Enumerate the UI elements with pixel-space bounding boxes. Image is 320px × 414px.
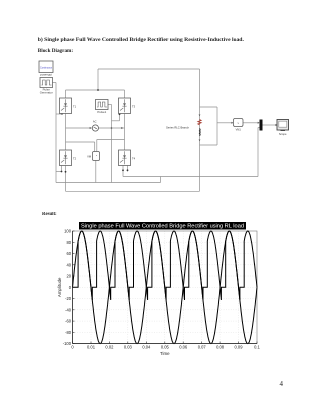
svg-text:Generator: Generator [40,90,53,94]
svg-text:60: 60 [66,251,71,256]
svg-text:Pulse1: Pulse1 [97,110,106,114]
svg-text:Single phase Full Wave Control: Single phase Full Wave Controlled Bridge… [81,224,244,230]
svg-text:Amplitude: Amplitude [57,277,62,297]
svg-text:T3: T3 [132,105,136,109]
svg-text:0.08: 0.08 [216,345,225,350]
svg-text:T4: T4 [132,157,136,161]
svg-text:0.02: 0.02 [105,345,114,350]
svg-text:20: 20 [66,274,71,279]
svg-text:T2: T2 [73,157,77,161]
svg-text:powergui: powergui [40,73,52,77]
svg-text:Series RLC Branch: Series RLC Branch [166,125,190,129]
svg-text:0.09: 0.09 [235,345,244,350]
svg-text:AC: AC [93,120,97,124]
svg-text:0: 0 [69,285,72,290]
svg-text:0.04: 0.04 [142,345,151,350]
svg-text:-40: -40 [65,307,72,312]
svg-text:0: 0 [71,345,74,350]
svg-text:0.06: 0.06 [179,345,188,350]
svg-text:0.07: 0.07 [198,345,207,350]
svg-text:-20: -20 [65,296,72,301]
svg-text:Continuous: Continuous [40,65,53,69]
svg-text:0.05: 0.05 [161,345,170,350]
svg-text:100: 100 [64,229,72,234]
svg-text:VM1: VM1 [236,129,242,132]
svg-text:0.03: 0.03 [124,345,133,350]
svg-text:Scope: Scope [279,132,287,136]
svg-text:40: 40 [66,262,71,267]
svg-text:-80: -80 [65,330,72,335]
svg-text:0.01: 0.01 [87,345,96,350]
svg-text:0.1: 0.1 [254,345,260,350]
svg-text:T1: T1 [73,105,77,109]
svg-text:-60: -60 [65,319,72,324]
svg-text:Time: Time [160,351,170,356]
svg-text:VM: VM [87,155,91,159]
svg-text:80: 80 [66,240,71,245]
